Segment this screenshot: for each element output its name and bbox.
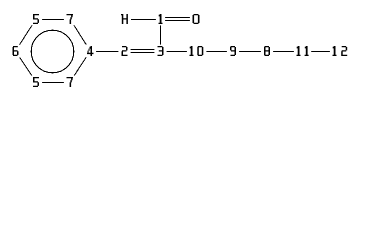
bond C3-C1 vertical <box>160 19 162 51</box>
atom label 6 (left ring carbon) <box>9 45 21 58</box>
atom label 1 (aldehyde carbon) <box>156 13 165 26</box>
atom label 10 <box>187 45 207 58</box>
bond C3-C10 <box>161 51 197 53</box>
atom label 7 (top-right ring carbon) <box>64 13 76 26</box>
atom label 5 (top-left ring carbon) <box>30 13 42 26</box>
double bond C2=C3 <box>125 50 161 53</box>
ring bond 6-5 upper-left <box>16 19 37 51</box>
atom label 8 <box>261 45 273 58</box>
bond C9-C8 <box>233 51 267 53</box>
ring bond 5-7 top <box>36 19 70 21</box>
atom label 5 (bottom-left ring carbon) <box>30 76 42 89</box>
ring bond 7-4 lower-right <box>70 51 90 82</box>
ring bond 7-4 upper-right <box>70 19 90 51</box>
atom label O (carbonyl oxygen) <box>190 13 202 26</box>
bond C11-C12 <box>303 51 341 53</box>
bond C4-C2 <box>90 51 124 53</box>
atom label 12 <box>330 45 350 58</box>
benzene ring aromatic circle <box>31 30 74 73</box>
bond C8-C11 <box>267 51 303 53</box>
atom label 3 <box>154 45 166 58</box>
ring bond 5-7 bottom <box>36 82 70 84</box>
atom label 9 <box>227 45 239 58</box>
atom label 4 (right ring carbon) <box>84 45 96 58</box>
atom label 2 <box>118 45 130 58</box>
double bond C1=O <box>161 18 197 21</box>
atom label H (aldehyde hydrogen) <box>118 13 131 26</box>
bond C10-C9 <box>197 51 233 53</box>
ring bond 6-5 lower-left <box>16 51 37 82</box>
bond H-C1 <box>125 19 161 21</box>
atom label 11 <box>294 45 311 58</box>
atom label 7 (bottom-right ring carbon) <box>64 76 76 89</box>
